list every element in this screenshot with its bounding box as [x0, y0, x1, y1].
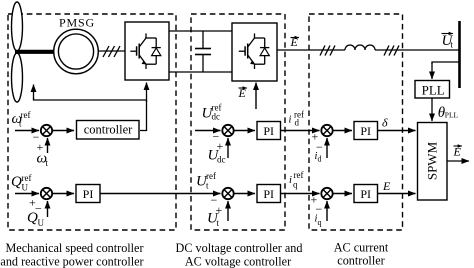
- feedback arrow id into S3: [326, 138, 328, 158]
- label vector E at SPWM output: [453, 145, 463, 159]
- PI block PI4: [257, 185, 281, 203]
- IGBT icon inside U1: [130, 33, 161, 69]
- SPWM block: [418, 123, 448, 201]
- minus sign at S6: [316, 202, 323, 216]
- dashed box: AC current controller group: [309, 14, 403, 230]
- label vector E at converter U2 gate: [238, 86, 248, 100]
- slash marks AC line right: [384, 46, 399, 56]
- wire PI2 to SPWM with delta label: [378, 130, 416, 132]
- svg-text:Q: Q: [27, 210, 38, 226]
- svg-text:q: q: [293, 180, 298, 190]
- svg-text:PI: PI: [360, 187, 371, 201]
- plus sign at S1: [37, 140, 44, 154]
- three-phase slash marks (machine side): [103, 46, 120, 57]
- svg-text:Mechanical speed controller: Mechanical speed controller: [5, 241, 143, 255]
- svg-text:E: E: [453, 145, 462, 159]
- label Udc ref: [202, 103, 222, 122]
- arrow S5 to PI4: [234, 193, 255, 195]
- plus sign at S4: [29, 196, 36, 210]
- dashed box: mechanical speed and reactive power controller group: [8, 14, 176, 230]
- wire controller output up to converter U1 gate: [140, 83, 147, 131]
- svg-text:q: q: [318, 218, 322, 227]
- svg-text:U: U: [38, 218, 45, 228]
- minus sign at S5: [211, 193, 218, 207]
- svg-text:i: i: [289, 115, 292, 126]
- turbine shaft: [15, 50, 55, 54]
- arrow omega ref into summing junction: [15, 130, 39, 132]
- summing junction S2 (DC voltage): [222, 125, 233, 136]
- svg-text:PI: PI: [83, 187, 94, 201]
- svg-text:AC current: AC current: [334, 241, 389, 255]
- feedback arrow iq into S6: [326, 201, 328, 221]
- summing junction S6 (q current): [321, 188, 332, 199]
- svg-text:controller: controller: [337, 254, 384, 268]
- svg-text:E: E: [382, 179, 391, 193]
- arrow QU ref into junction S4: [15, 193, 39, 195]
- svg-text:SPWM: SPWM: [425, 141, 440, 180]
- arrow S4 to PI3: [52, 193, 74, 195]
- arrow S1 to controller: [52, 130, 74, 132]
- arrow Udc ref into junction S2: [195, 130, 221, 132]
- label theta PLL: [438, 105, 459, 121]
- feedback arrow Udc into S2: [227, 138, 229, 158]
- PI block PI3: [76, 185, 100, 203]
- svg-text:i: i: [289, 175, 292, 186]
- svg-text:DC voltage controller and: DC voltage controller and: [176, 241, 303, 255]
- svg-text:Q: Q: [11, 174, 22, 190]
- svg-text:δ: δ: [382, 116, 388, 130]
- inductor L1: [345, 45, 375, 50]
- minus sign at S1: [33, 130, 40, 144]
- svg-text:d: d: [318, 155, 322, 164]
- wire PMSG to converter 1: [98, 50, 125, 52]
- capacitor C1 (DC link): [195, 31, 211, 72]
- svg-text:ref: ref: [21, 110, 31, 120]
- svg-text:PLL: PLL: [422, 82, 445, 97]
- label omega t: [37, 151, 49, 169]
- wire PI4 to junction S6: [281, 193, 320, 195]
- svg-text:PMSG: PMSG: [59, 16, 95, 30]
- label Ut ref: [196, 171, 216, 191]
- PI block PI1: [257, 122, 281, 140]
- svg-text:U: U: [22, 183, 29, 193]
- wire tap from bus to PLL: [432, 62, 459, 79]
- label vector E on converter output wire: [290, 35, 300, 49]
- label id ref: [289, 110, 305, 128]
- svg-text:ref: ref: [22, 173, 32, 183]
- dashed box: DC voltage and AC voltage controller group: [191, 14, 285, 230]
- wire PI5 to SPWM with E label: [378, 193, 416, 195]
- summing junction S5 (AC voltage): [222, 188, 233, 199]
- PLL block: [415, 81, 450, 99]
- minus sign at S2: [213, 130, 220, 144]
- label vector Ut: [442, 33, 454, 49]
- DC bus bottom wire: [169, 71, 232, 73]
- arrow S3 to PI2: [333, 130, 352, 132]
- slash marks AC line left: [320, 46, 335, 56]
- label Udc: [208, 148, 226, 165]
- converter U1 machine-side box: [125, 22, 169, 80]
- label id: [315, 151, 322, 164]
- arrow S6 to PI5: [333, 193, 352, 195]
- summing junction S3 (d current): [321, 125, 332, 136]
- caption group 3: [334, 241, 389, 268]
- feedback arrow Ut into S5: [227, 201, 229, 221]
- svg-text:PI: PI: [263, 124, 274, 138]
- svg-text:and reactive power controller: and reactive power controller: [0, 254, 143, 268]
- IGBT icon inside U2: [239, 33, 270, 69]
- label Ut: [207, 211, 220, 229]
- PI block PI5: [354, 185, 378, 203]
- grid bus bar: [458, 21, 461, 88]
- svg-text:PI: PI: [360, 124, 371, 138]
- converter U2 grid-side box: [232, 23, 277, 81]
- plus sign at S2: [217, 139, 224, 153]
- feedback arrow omega t into S1: [47, 138, 49, 153]
- wire converter U2 output to grid: [277, 49, 345, 51]
- svg-text:controller: controller: [84, 123, 133, 137]
- summing junction S1 (speed): [41, 125, 52, 136]
- controller block: [77, 121, 140, 140]
- SPWM output arrow: [447, 160, 469, 162]
- plus sign at S3: [312, 130, 319, 144]
- label delta: [382, 116, 388, 130]
- plus sign at S6: [311, 193, 318, 207]
- label QU: [27, 210, 45, 228]
- arrow S2 to PI1: [234, 130, 255, 132]
- label QU ref: [11, 173, 32, 193]
- DC bus top wire: [169, 30, 232, 32]
- gate arrow into converter U2: [255, 83, 257, 110]
- summing junction S4 (reactive power): [41, 188, 52, 199]
- svg-text:PI: PI: [263, 187, 274, 201]
- feedback arrow QU into S4: [47, 201, 49, 217]
- wire branch to turbine pitch arrow: [34, 85, 147, 101]
- caption group 1: [0, 241, 143, 268]
- long wire PI3 to junction S5 with Ut ref label: [100, 193, 221, 195]
- svg-text:AC voltage controller: AC voltage controller: [185, 254, 291, 268]
- generator PMSG: [54, 29, 99, 74]
- label PMSG: [59, 16, 95, 30]
- svg-text:ref: ref: [206, 171, 216, 181]
- caption group 2: [176, 241, 303, 268]
- svg-text:ref: ref: [294, 170, 304, 180]
- wire PI1 to junction S3: [281, 130, 320, 132]
- svg-text:PLL: PLL: [445, 111, 459, 120]
- wind turbine blades: [12, 2, 23, 102]
- label E: [382, 179, 391, 193]
- svg-text:d: d: [295, 118, 300, 128]
- label iq ref: [289, 170, 304, 190]
- PI block PI2: [354, 122, 378, 140]
- svg-text:dc: dc: [217, 155, 226, 165]
- minus sign at S3: [316, 140, 323, 154]
- svg-text:dc: dc: [212, 112, 221, 122]
- wire PLL to SPWM: [431, 98, 433, 121]
- label iq: [315, 214, 322, 228]
- minus sign at S4: [35, 202, 42, 216]
- plus sign at S5: [216, 203, 223, 217]
- wire inductor to grid bus: [375, 49, 459, 51]
- label omega t ref: [12, 110, 31, 129]
